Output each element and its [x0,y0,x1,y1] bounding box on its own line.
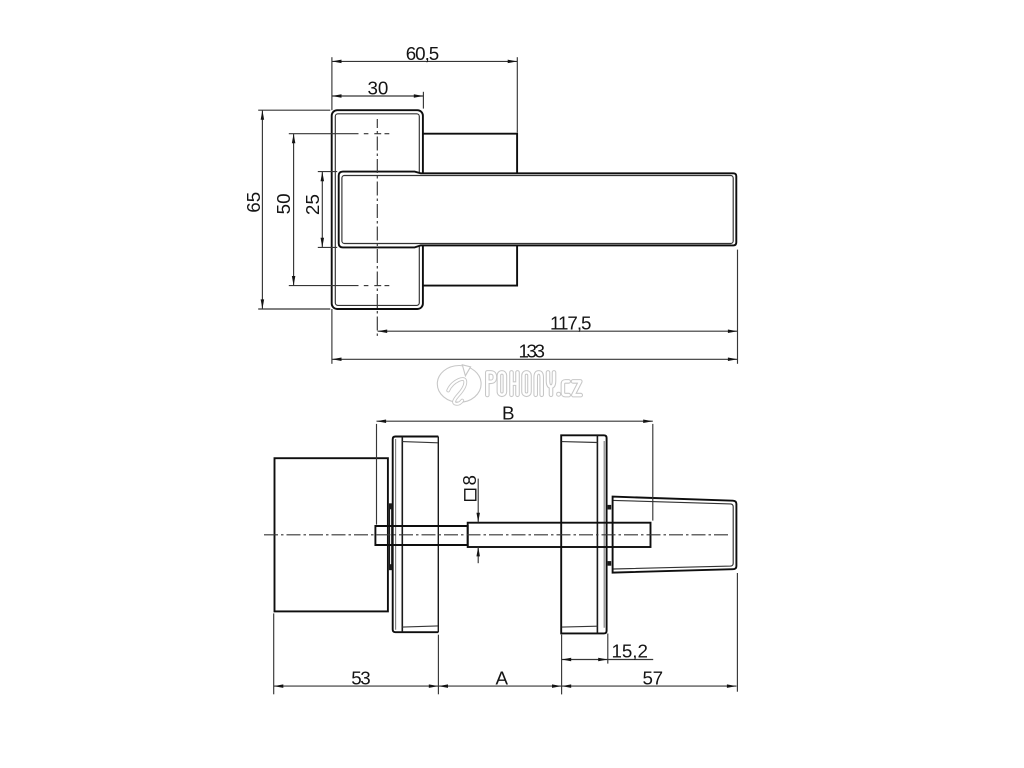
spindle housing neck front [423,134,517,286]
dimension A [438,684,448,688]
lever bar front inner line [342,176,733,244]
screw centerline bottom [289,285,390,287]
handle neck side outer [613,497,737,573]
svg-text:A: A [496,667,509,688]
svg-text:30: 30 [368,78,389,99]
dimension 53 [274,684,284,688]
dimension 15,2 [562,634,654,664]
svg-text:117,5: 117,5 [550,313,592,334]
rosette centerline vertical [376,119,378,336]
svg-text:8: 8 [459,475,480,485]
rosette left side inner lines [396,437,438,633]
dimension 57 [562,684,572,688]
svg-text:53: 53 [351,667,371,688]
lever bar front outer [339,172,737,248]
svg-text:57: 57 [643,667,664,688]
rosette right side outer [561,435,606,633]
dimension 30 [332,92,424,109]
svg-text:133: 133 [518,341,545,362]
watermark logo circle [437,366,481,403]
dimension B [377,421,653,524]
screw centerline top [289,133,390,135]
watermark text POHONY.cz [487,372,580,396]
svg-text:65: 65 [243,192,264,213]
dimension 65 [258,110,330,309]
dimension 25 [318,172,337,248]
svg-text:25: 25 [302,194,323,215]
dimension 133 [332,250,738,364]
watermark i glyph [448,365,470,404]
rosette front inner line [335,114,419,306]
svg-text:50: 50 [273,193,294,214]
rosette left side right edge [437,437,439,633]
rosette right clips [608,505,612,566]
turn knob block [275,458,388,611]
spindle shaft [375,523,650,547]
dimension 53 / A / 57 baseline [274,573,738,694]
rosette left mounting band [390,504,392,570]
handle neck side inner line [614,500,734,569]
rosette right side inner lines [562,435,604,633]
svg-text:B: B [502,402,515,423]
rosette left side outer [393,437,439,633]
svg-text:15,2: 15,2 [611,641,648,662]
dimension 50 [293,134,295,286]
dimension square 8 [477,479,479,564]
rosette front outer [332,110,423,309]
dimension 117,5 [378,330,738,332]
dimension 60,5 [332,57,517,132]
axis centerline side view [264,534,730,536]
svg-text:60,5: 60,5 [406,43,440,64]
rosette left band end clips [389,504,392,570]
